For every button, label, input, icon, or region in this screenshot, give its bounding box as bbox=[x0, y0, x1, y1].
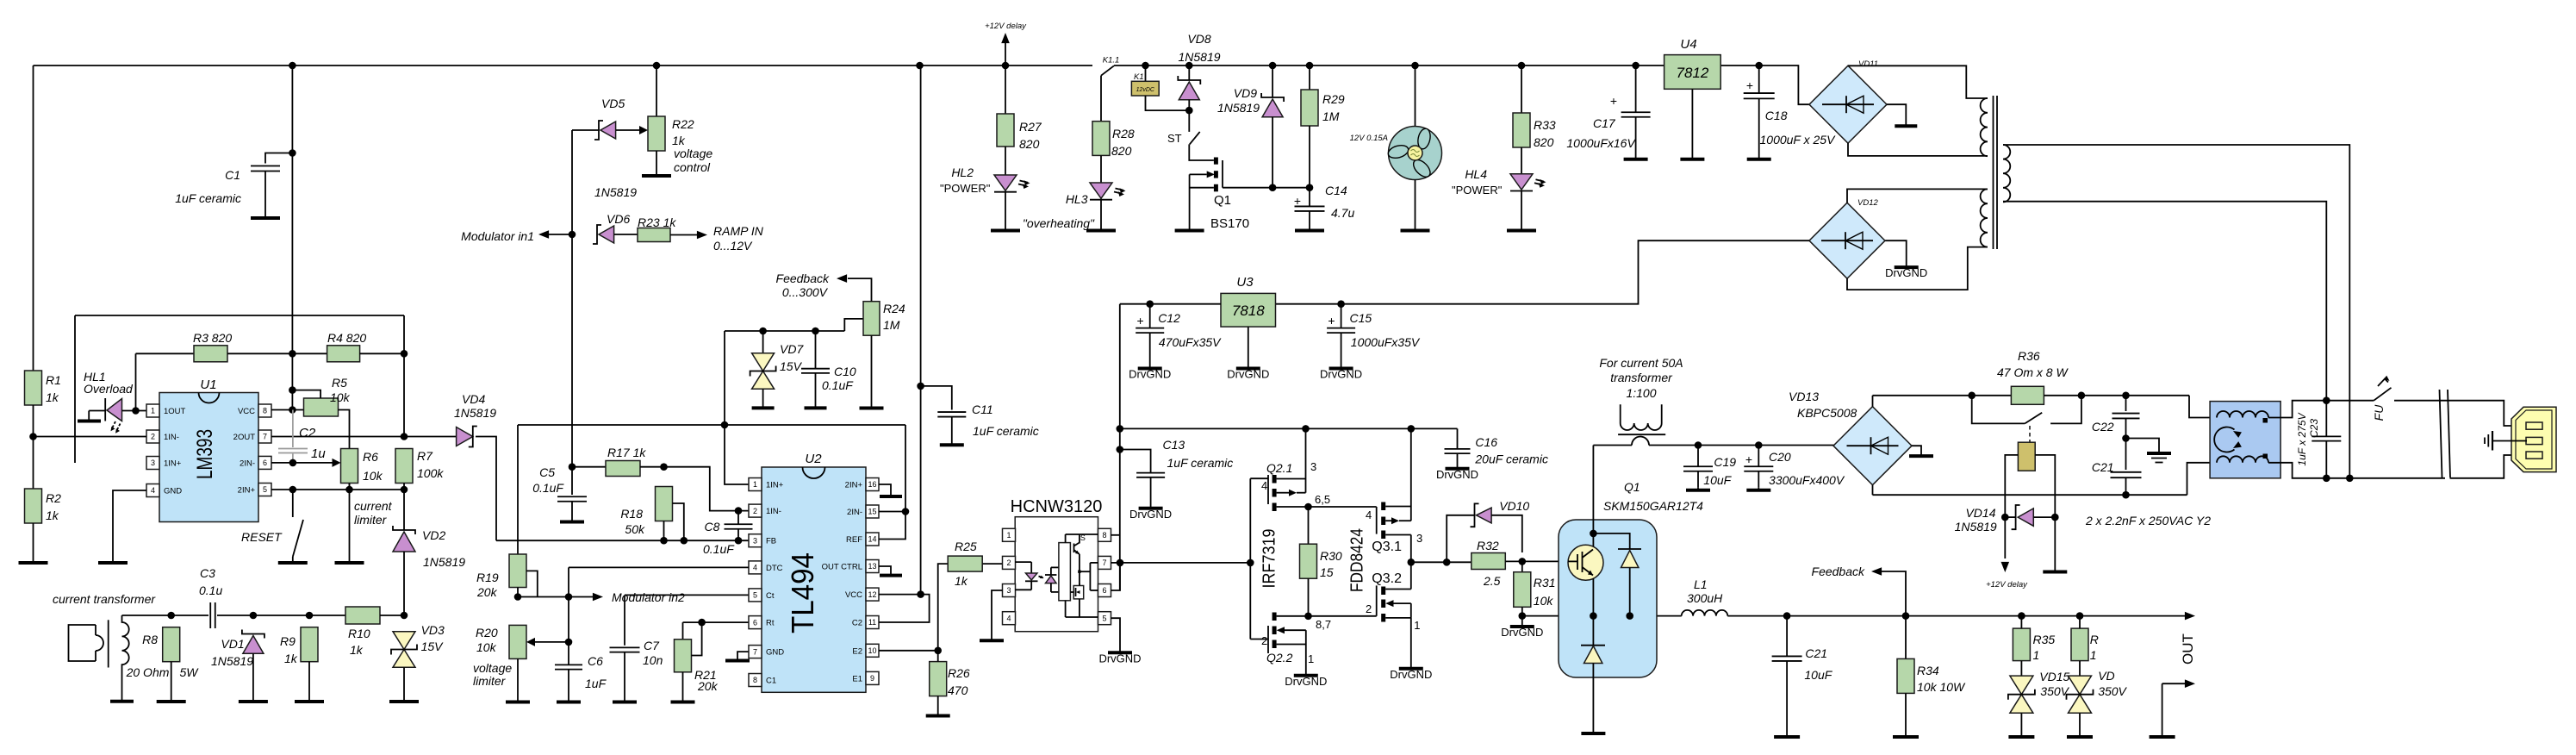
LED HL3 overheating bbox=[1090, 183, 1126, 200]
HCNW3120 pin 4 bbox=[1003, 612, 1016, 625]
node: C5/R17 junction bbox=[569, 463, 576, 471]
svg-text:1IN+: 1IN+ bbox=[766, 481, 784, 490]
svg-text:U4: U4 bbox=[1680, 37, 1696, 52]
svg-text:C10: C10 bbox=[834, 365, 856, 378]
svg-text:C21: C21 bbox=[2092, 460, 2114, 474]
resistor R10 bbox=[345, 607, 380, 624]
U1 pin 7 2OUT bbox=[233, 430, 271, 443]
wire: VD12 right corner to DrvGND bbox=[1885, 240, 1907, 264]
wire: driver output row bbox=[1411, 561, 1472, 563]
svg-text:10k: 10k bbox=[363, 469, 383, 483]
pot arrow into R6 bbox=[333, 459, 341, 467]
node: C12 junction bbox=[1146, 300, 1154, 308]
capacitor C21 10uF (output) bbox=[1772, 616, 1802, 734]
label R9 bbox=[280, 634, 296, 648]
svg-text:VD13: VD13 bbox=[1789, 390, 1819, 403]
node: VD8 top junction bbox=[1185, 62, 1193, 70]
svg-text:10uF: 10uF bbox=[1703, 473, 1732, 487]
node: R18 wiper on FB row bbox=[681, 537, 688, 545]
svg-text:R24: R24 bbox=[883, 302, 905, 315]
ground at OUT- return bbox=[2150, 734, 2175, 738]
wire: C22 top lead bbox=[2125, 396, 2127, 411]
svg-text:1k: 1k bbox=[284, 652, 298, 665]
svg-text:+12V delay: +12V delay bbox=[1986, 580, 2028, 590]
svg-text:6,5: 6,5 bbox=[1315, 493, 1330, 506]
node: C8 bottom junction bbox=[735, 537, 743, 545]
wire: 8,7 row to Q3.2 gate bbox=[1309, 615, 1377, 617]
wire: R28 to HL3 bbox=[1100, 155, 1102, 183]
transistor Q1 BS170 (MOSFET) bbox=[1190, 158, 1223, 192]
label R1 value bbox=[46, 390, 59, 404]
IGBT transistor (in Q1 module) bbox=[1568, 545, 1603, 580]
earth symbol at Y-cap midpoint bbox=[2126, 439, 2172, 463]
wire: pin1 riser bbox=[725, 331, 749, 484]
svg-text:HCNW3120: HCNW3120 bbox=[1011, 497, 1103, 516]
svg-text:2: 2 bbox=[753, 507, 757, 515]
diode VD1 1N5819 bbox=[242, 630, 264, 654]
DrvGND at C16 bbox=[1436, 466, 1478, 481]
HCNW3120 pin 1 bbox=[1003, 528, 1016, 541]
svg-text:VCC: VCC bbox=[845, 590, 862, 600]
DrvGND at VD12 bbox=[1885, 265, 1927, 280]
label 6,5 bbox=[1315, 493, 1330, 506]
label For current 50A bbox=[1599, 356, 1683, 370]
wire: R20 bottom bbox=[517, 658, 519, 699]
label R4 820 bbox=[327, 331, 366, 345]
label R2 value bbox=[46, 509, 59, 522]
svg-text:Modulator in1: Modulator in1 bbox=[461, 229, 534, 243]
wire: ST to Q1 gate bbox=[1189, 144, 1214, 160]
svg-text:7: 7 bbox=[753, 647, 757, 656]
svg-text:IRF7319: IRF7319 bbox=[1260, 529, 1279, 589]
svg-text:Feedback: Feedback bbox=[1812, 565, 1865, 578]
svg-text:Q2.2: Q2.2 bbox=[1266, 651, 1293, 665]
svg-text:FB: FB bbox=[766, 537, 776, 546]
svg-text:Overload: Overload bbox=[84, 382, 134, 396]
label C15 bbox=[1350, 311, 1372, 325]
svg-text:Rt: Rt bbox=[766, 619, 775, 628]
svg-text:DrvGND: DrvGND bbox=[1501, 626, 1543, 639]
label R7 value bbox=[417, 466, 444, 480]
node: K1 coil top junction bbox=[1142, 62, 1149, 70]
svg-text:R10: R10 bbox=[348, 627, 370, 640]
label current limiter line1 bbox=[354, 499, 393, 513]
wire: U2 GND pin lead bbox=[737, 652, 749, 658]
label Q2.1 bbox=[1266, 461, 1292, 475]
label C10 bbox=[834, 365, 856, 378]
label C7 bbox=[644, 639, 660, 652]
ground below C7 bbox=[613, 699, 637, 702]
svg-text:R23 1k: R23 1k bbox=[638, 215, 676, 229]
label POWER (HL4) bbox=[1452, 184, 1503, 197]
wire: R1 to 1IN- node bbox=[33, 405, 34, 437]
svg-text:C20: C20 bbox=[1769, 450, 1791, 464]
svg-text:4: 4 bbox=[1366, 509, 1372, 521]
svg-text:+: + bbox=[1745, 452, 1752, 466]
wire: output line bbox=[1727, 615, 2188, 617]
svg-text:R34: R34 bbox=[1917, 664, 1939, 677]
node: VD7 junction bbox=[759, 328, 767, 335]
wire: R22 top feed bbox=[656, 66, 657, 116]
svg-text:15V: 15V bbox=[780, 359, 803, 373]
node: VD10 branch junction bbox=[1443, 558, 1451, 566]
U2 pin 16 2IN+ bbox=[845, 478, 879, 491]
svg-text:C12: C12 bbox=[1158, 311, 1180, 325]
ground below fan bbox=[1401, 228, 1430, 231]
svg-text:4: 4 bbox=[1006, 614, 1011, 622]
svg-text:VD: VD bbox=[2098, 669, 2114, 683]
svg-text:VD12: VD12 bbox=[1857, 198, 1878, 208]
node: R3/R4 junction at x=339 bbox=[289, 350, 296, 358]
svg-text:VD7: VD7 bbox=[780, 342, 804, 356]
arrow: Modulator in1 (points left) bbox=[538, 230, 549, 239]
wire: collector entry bbox=[1592, 446, 1594, 533]
node: primary top junction bbox=[2346, 475, 2354, 483]
wire: R to VD bbox=[2079, 661, 2081, 677]
svg-text:2: 2 bbox=[1006, 558, 1011, 567]
wire: R33 to HL4 bbox=[1521, 147, 1522, 174]
wire: R23 to RAMP IN arrow bbox=[670, 234, 700, 236]
label C5 value bbox=[532, 481, 564, 495]
diode VD2 1N5819 (points up) bbox=[393, 526, 415, 552]
node: R9 junction bbox=[306, 612, 314, 620]
label K1.1 bbox=[1103, 56, 1120, 66]
label R35 bbox=[2033, 633, 2056, 646]
svg-text:SKM150GAR12T4: SKM150GAR12T4 bbox=[1603, 499, 1703, 513]
node: VD6 junction on x=664 vertical bbox=[569, 231, 576, 239]
ground below R21 bbox=[671, 699, 695, 702]
svg-text:C6: C6 bbox=[588, 654, 603, 668]
wire: RESET switch upper lead bbox=[292, 490, 294, 517]
node: 6,5 junction bbox=[1304, 503, 1312, 511]
fuse switch FU blade bbox=[2374, 376, 2391, 401]
svg-text:HL3: HL3 bbox=[1066, 192, 1088, 206]
svg-text:current transformer: current transformer bbox=[53, 592, 156, 606]
svg-text:1uF x 275V: 1uF x 275V bbox=[2296, 412, 2308, 465]
capacitor C19 10uF bbox=[1683, 446, 1713, 488]
wire: R26 top lead bbox=[937, 651, 939, 662]
svg-text:15V: 15V bbox=[421, 640, 445, 653]
svg-text:DrvGND: DrvGND bbox=[1098, 652, 1141, 665]
svg-text:R6: R6 bbox=[363, 450, 378, 464]
HCNW3120 pin 2 bbox=[1003, 556, 1016, 569]
wire: HL4 cathode to ground bbox=[1521, 190, 1522, 228]
svg-text:C8: C8 bbox=[705, 520, 720, 533]
node: C1 branch junction on x=339 vertical bbox=[289, 149, 296, 157]
svg-text:7: 7 bbox=[1102, 558, 1106, 567]
svg-text:0...300V: 0...300V bbox=[782, 285, 829, 299]
wire: U3 ground pin bbox=[1248, 327, 1249, 365]
capacitor C16 20uF ceramic bbox=[1445, 449, 1471, 466]
wire: EMI lower out bbox=[2268, 463, 2445, 478]
svg-text:1000uFx16V: 1000uFx16V bbox=[1566, 136, 1636, 150]
resistor R31 10k bbox=[1514, 572, 1531, 608]
wire: R4 right lead bbox=[359, 353, 404, 354]
svg-text:KBPC5008: KBPC5008 bbox=[1797, 406, 1857, 420]
wire: DTC row pin4 to x=660 column bbox=[569, 566, 749, 568]
svg-text:R25: R25 bbox=[955, 540, 977, 553]
svg-text:VD3: VD3 bbox=[421, 623, 445, 637]
wire: drive rail bbox=[1120, 427, 1458, 429]
label SKM150GAR12T4 bbox=[1603, 499, 1703, 513]
label L1 value bbox=[1687, 591, 1723, 605]
wire: R3-R4 middle bbox=[227, 353, 327, 354]
wire: VD10 anode bend bbox=[1491, 515, 1522, 552]
label BS170 bbox=[1210, 216, 1249, 231]
label R31 value bbox=[1534, 594, 1554, 608]
diode VD14 1N5819 (points left) bbox=[2012, 505, 2034, 529]
ground below R2 bbox=[19, 523, 48, 563]
EMI filter circular arrow bbox=[2214, 427, 2242, 452]
node: Modulator in2 / C6 junction bbox=[565, 593, 573, 601]
wire: pin15 2IN- stub bbox=[879, 511, 905, 513]
wire: gate node to R31 bbox=[1521, 561, 1523, 571]
resistor R20 10k (voltage limiter pot) bbox=[509, 625, 526, 658]
label C7 value bbox=[643, 653, 663, 667]
label R18 value bbox=[625, 522, 645, 536]
node: 8,7 junction bbox=[1304, 613, 1312, 621]
svg-text:TL494: TL494 bbox=[785, 552, 820, 633]
svg-text:Q3.2: Q3.2 bbox=[1372, 571, 1402, 586]
svg-text:8: 8 bbox=[263, 407, 267, 415]
svg-text:Modulator in2: Modulator in2 bbox=[612, 590, 685, 604]
svg-text:DrvGND: DrvGND bbox=[1320, 368, 1362, 381]
label R30 value bbox=[1320, 565, 1334, 579]
label 1N5819 (VD8) bbox=[1178, 50, 1220, 64]
svg-text:0...12V: 0...12V bbox=[713, 239, 753, 253]
node: VD14 anode junction bbox=[2051, 514, 2059, 521]
wire: R top lead bbox=[2079, 616, 2081, 629]
label HL3 bbox=[1066, 192, 1088, 206]
svg-text:470: 470 bbox=[948, 683, 968, 697]
wire: VD13 bottom corner riser bbox=[1872, 485, 1874, 495]
mains plug (IEC inlet) body bbox=[2511, 407, 2556, 471]
svg-text:R22: R22 bbox=[672, 117, 694, 131]
node: top rail junction at x=339 bbox=[289, 62, 296, 70]
node: C21 output junction bbox=[1783, 612, 1791, 620]
ground below VD14 bbox=[2043, 569, 2067, 572]
wire: R31 bottom bbox=[1521, 607, 1523, 615]
wire: 1IN+ / REF rail bbox=[518, 424, 905, 426]
transistor Q2.1 (IRF7319 P-ch) bbox=[1250, 475, 1308, 511]
svg-text:VD1: VD1 bbox=[221, 637, 244, 651]
node: R6 bottom junction bbox=[345, 486, 353, 494]
wire: x=469 down to 2OUT row bbox=[403, 353, 405, 436]
wire: IGBT emitter lead bbox=[1592, 578, 1594, 616]
wire: mains lower rail bbox=[1873, 494, 2187, 496]
wire: Ct row bbox=[625, 594, 749, 596]
wire: R36 bypass right leg bbox=[2050, 396, 2081, 424]
label C6 bbox=[588, 654, 603, 668]
svg-text:0.1uF: 0.1uF bbox=[822, 378, 854, 392]
node: C22/C21 midpoint bbox=[2122, 434, 2130, 442]
label Q2.2 pin 1 bbox=[1308, 652, 1314, 665]
transistor Q2.2 (IRF7319 N-ch) bbox=[1250, 613, 1308, 654]
svg-text:1N5819: 1N5819 bbox=[423, 555, 465, 569]
svg-text:"POWER": "POWER" bbox=[1452, 184, 1503, 197]
node: C23 top junction bbox=[2323, 396, 2330, 404]
node: +12V delay arrow junction bbox=[1002, 62, 1010, 70]
DrvGND at Q3.2 bbox=[1390, 665, 1432, 681]
svg-text:1: 1 bbox=[2090, 648, 2097, 662]
resistor R4 bbox=[327, 346, 360, 362]
svg-text:VD5: VD5 bbox=[601, 97, 625, 110]
ground below C18 bbox=[1747, 156, 1771, 159]
wire: R25 to opto pin2 bbox=[983, 563, 1003, 565]
wire: lower rail to EMI filter bbox=[2187, 463, 2211, 495]
svg-text:HL4: HL4 bbox=[1465, 167, 1487, 181]
wire: R19 riser bbox=[517, 425, 519, 554]
svg-text:Q1: Q1 bbox=[1624, 480, 1640, 494]
capacitor C5 bbox=[557, 496, 587, 502]
label R25 bbox=[955, 540, 977, 553]
diode freewheel upper (in Q1 module) bbox=[1618, 549, 1641, 568]
capacitor C18 1000uF x 25V bbox=[1744, 66, 1775, 156]
label R34 bbox=[1917, 664, 1939, 677]
svg-text:limiter: limiter bbox=[473, 674, 507, 688]
wire: R9 node to R10 bbox=[309, 615, 345, 616]
ground below C10 bbox=[805, 405, 827, 408]
svg-text:R8: R8 bbox=[142, 633, 158, 646]
resistor R17 bbox=[606, 461, 640, 477]
node: E2 junction bbox=[934, 647, 942, 655]
wire: VCC row pin8 to R5 bbox=[271, 409, 304, 411]
label R19 bbox=[476, 571, 499, 584]
U2 pin 8 C1 bbox=[749, 674, 776, 687]
wire: R30 bottom lead bbox=[1308, 578, 1310, 616]
capacitor C10 bbox=[801, 331, 830, 405]
label Q2.1 pin 4 bbox=[1261, 479, 1267, 492]
EMI filter lower winding bbox=[2217, 456, 2268, 463]
wire: R24 wiper to rail bbox=[844, 319, 863, 331]
svg-text:2.5: 2.5 bbox=[1483, 574, 1501, 588]
label C12 bbox=[1158, 311, 1180, 325]
node: R19/R20 junction bbox=[514, 593, 522, 601]
U1 pin 6 2IN- bbox=[240, 456, 271, 469]
svg-text:VD9: VD9 bbox=[1234, 86, 1257, 100]
wire: HL1 cathode to pin1 bbox=[122, 410, 147, 412]
wire: DTC node row bbox=[518, 596, 569, 598]
svg-text:10k: 10k bbox=[330, 390, 351, 404]
label C19 bbox=[1714, 455, 1736, 469]
label R7 bbox=[417, 449, 433, 463]
wire: +12V vertical from top rail to VCC bbox=[920, 66, 922, 595]
ground at U2 pin7 bbox=[725, 658, 750, 661]
node: R5 wiper junction bbox=[289, 386, 296, 394]
svg-text:transformer: transformer bbox=[1610, 371, 1673, 384]
label HL1 bbox=[84, 370, 106, 384]
label Q2.1 pin 3 bbox=[1310, 460, 1316, 473]
label 20 Ohm bbox=[126, 665, 170, 679]
svg-text:VD15: VD15 bbox=[2039, 670, 2069, 683]
wire: fan bottom lead bbox=[1415, 180, 1416, 228]
resistor R34 10k 10W bbox=[1897, 658, 1914, 693]
label VD13 bbox=[1789, 390, 1819, 403]
wire: vertical from top rail to R3/R4 node bbox=[291, 66, 293, 353]
label Q3.2 bbox=[1372, 571, 1402, 586]
svg-text:11: 11 bbox=[868, 618, 876, 627]
wire: ST switch upper lead bbox=[1188, 110, 1190, 132]
node: C6 top junction bbox=[565, 639, 573, 646]
DrvGND at C13 bbox=[1129, 505, 1172, 521]
wire: Modulator in1 stub bbox=[544, 234, 572, 235]
label C13 bbox=[1163, 438, 1185, 452]
U2 pin 3 FB bbox=[749, 534, 776, 547]
wire: R20 wiper to C6 node bbox=[535, 641, 569, 643]
node: C18 junction bbox=[1755, 62, 1763, 70]
svg-text:+: + bbox=[1746, 78, 1753, 92]
relay contact K1.1 bbox=[1101, 66, 1114, 75]
node: C19 junction bbox=[1695, 441, 1702, 449]
wire: R5 right to R6 top bbox=[339, 410, 350, 449]
wire: opto pin7 stub bbox=[1111, 562, 1120, 564]
voltage regulator U4 7812 bbox=[1664, 55, 1721, 90]
label 1N5819 (VD6) bbox=[594, 185, 637, 199]
resistor R23 bbox=[638, 228, 670, 242]
svg-text:1uF ceramic: 1uF ceramic bbox=[175, 191, 241, 205]
capacitor C8 bbox=[725, 511, 753, 541]
svg-text:R27: R27 bbox=[1019, 120, 1042, 134]
node: RESET junction bbox=[289, 486, 297, 494]
svg-text:C3: C3 bbox=[200, 566, 215, 580]
svg-text:5: 5 bbox=[753, 591, 757, 600]
wire: lower diode to ground bbox=[1592, 664, 1594, 731]
wire: Q3.2 drain to output node bbox=[1410, 562, 1412, 589]
wire: VD9 cathode lead bbox=[1272, 66, 1273, 97]
label current limiter line2 bbox=[354, 513, 388, 527]
label R6 value bbox=[363, 469, 383, 483]
U1 pin 1 1OUT bbox=[146, 404, 186, 417]
arrow: RAMP IN (points right) bbox=[697, 231, 707, 240]
svg-text:R33: R33 bbox=[1534, 118, 1556, 132]
capacitor C22 (Y cap) bbox=[2112, 414, 2140, 439]
wire: R17 row right to 1IN- bend bbox=[640, 467, 749, 511]
label R29 value bbox=[1322, 109, 1340, 123]
svg-text:1N5819: 1N5819 bbox=[1178, 50, 1220, 64]
svg-text:C2: C2 bbox=[299, 426, 316, 440]
wire: R17 row left bbox=[572, 466, 606, 468]
label R17 1k bbox=[607, 446, 646, 459]
label VD value bbox=[2098, 684, 2127, 698]
resistor R7 100k bbox=[395, 449, 413, 484]
node: fan top junction bbox=[1411, 62, 1419, 70]
wire: 18V output vertical down bbox=[1119, 304, 1121, 590]
wire: VD12 top corner to T1 lower secondary bbox=[1847, 189, 1988, 203]
label R1 bbox=[46, 373, 61, 387]
node: VD8/K1/ST junction bbox=[1185, 107, 1193, 115]
DrvGND at R31 bbox=[1501, 616, 1543, 639]
label HCNW3120 bbox=[1011, 497, 1103, 516]
label C20 bbox=[1769, 450, 1791, 464]
svg-text:1k: 1k bbox=[672, 134, 686, 147]
transformer T1 upper secondary winding bbox=[1981, 98, 1988, 156]
label VD3 bbox=[421, 623, 445, 637]
wire: 2OUT row bbox=[271, 436, 457, 438]
wire: emitter rail bbox=[1522, 615, 1682, 617]
capacitor C20 3300uFx400V bbox=[1744, 446, 1773, 488]
svg-text:DrvGND: DrvGND bbox=[1129, 368, 1171, 381]
wire: pin10 E2 stub bbox=[879, 650, 938, 652]
plug pin middle bbox=[2526, 437, 2542, 444]
wire: 1IN+ loop left vertical bbox=[74, 315, 76, 463]
node: 2IN-/REF junction bbox=[902, 508, 910, 515]
label C1 value bbox=[175, 191, 241, 205]
label Modulator in1 bbox=[461, 229, 534, 243]
svg-text:Q2.1: Q2.1 bbox=[1266, 461, 1292, 475]
diode lower (in Q1 module) bbox=[1581, 646, 1605, 664]
transformer T1 primary winding bbox=[2003, 145, 2010, 202]
ground below output C21 bbox=[1774, 734, 1800, 738]
